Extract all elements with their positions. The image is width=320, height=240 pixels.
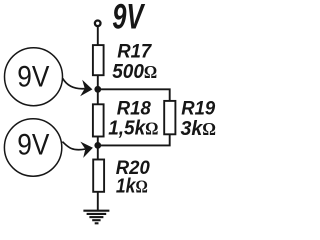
svg-text:9V: 9V bbox=[17, 59, 49, 93]
svg-text:1,5kΩ: 1,5kΩ bbox=[108, 117, 158, 140]
wire branch bottom (R19 to node B) bbox=[98, 134, 170, 145]
node A junction dot bbox=[94, 86, 101, 93]
resistor R17 bbox=[93, 45, 104, 75]
wire R17 to R18 bbox=[97, 75, 99, 104]
svg-text:R17: R17 bbox=[117, 41, 152, 63]
svg-text:1kΩ: 1kΩ bbox=[116, 174, 148, 196]
wire R18 to R20 bbox=[97, 137, 99, 160]
svg-text:9V: 9V bbox=[17, 127, 49, 161]
svg-text:R19: R19 bbox=[181, 98, 215, 120]
source circle V1 bbox=[5, 48, 63, 106]
svg-text:500Ω: 500Ω bbox=[112, 61, 157, 84]
svg-text:3kΩ: 3kΩ bbox=[181, 118, 217, 140]
arrow V1 to node A bbox=[63, 78, 94, 97]
wire R20 to ground bbox=[97, 192, 99, 211]
wire branch top (node A to R19) bbox=[98, 89, 170, 101]
source circle V2 bbox=[4, 119, 61, 176]
terminal circle bbox=[95, 21, 101, 27]
ground bbox=[83, 211, 109, 224]
resistor R20 bbox=[93, 160, 104, 192]
node B junction dot bbox=[94, 142, 101, 149]
resistor R19 bbox=[164, 101, 175, 134]
wire top (terminal to R17) bbox=[97, 26, 99, 45]
resistor R18 bbox=[93, 104, 104, 136]
arrow V2 to node B bbox=[62, 140, 94, 158]
svg-text:9V: 9V bbox=[112, 0, 145, 37]
